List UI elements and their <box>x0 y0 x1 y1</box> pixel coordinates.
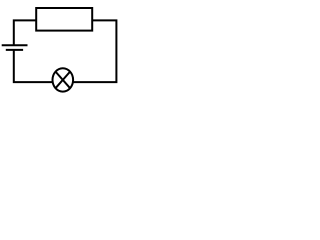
wire from resistor right terminal along right rail down to lamp <box>72 20 116 82</box>
wire from battery negative plate down and right to lamp left terminal <box>14 50 54 82</box>
battery B1 short plate <box>6 49 23 51</box>
resistor R1 <box>36 8 92 31</box>
lamp L1 <box>53 68 74 91</box>
wire from battery positive plate up and right to resistor left terminal <box>14 20 36 45</box>
battery B1 long plate <box>2 44 28 46</box>
